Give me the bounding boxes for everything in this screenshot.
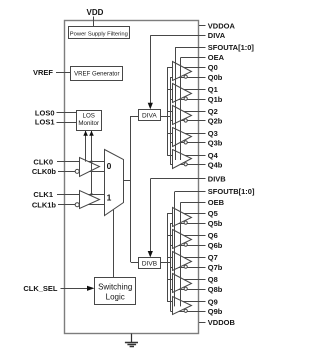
inversion bubble CLK1b [75,203,79,207]
svg-text:Q3: Q3 [208,129,218,138]
wire Q7 [167,257,205,259]
svg-text:Monitor: Monitor [78,120,99,127]
pin OEB [199,198,225,207]
svg-text:Q0b: Q0b [208,73,223,82]
output buffer Q8 [173,274,192,293]
pin LOS1 label [35,118,55,127]
wire trunk to DIVB [131,262,138,264]
wire OEA [181,58,200,161]
pin Q8b [199,285,223,294]
output buffer Q6 [173,230,192,249]
pin Q0 [199,63,218,72]
wire clock bus A comp [170,77,172,165]
pin Q1 [199,85,218,94]
pin Q4b [199,160,223,169]
svg-text:0: 0 [107,161,112,171]
pin SFOUTB[1:0] [199,187,255,196]
pin Q3 [199,129,218,138]
inversion bubble CLK0b [75,169,79,173]
svg-text:Q2: Q2 [208,107,218,116]
pin OEA [199,53,225,62]
svg-text:VDDOA: VDDOA [208,22,236,31]
pin CLK0b label [32,167,57,176]
svg-text:Q3b: Q3b [208,139,223,148]
svg-text:CLK1b: CLK1b [32,200,57,209]
pin Q0b [199,73,223,82]
inversion bubble Q6b [184,243,187,246]
pin DIVA [199,31,226,40]
output buffer Q1 [173,84,192,103]
svg-text:Q1: Q1 [208,85,218,94]
pin Q6 [199,231,218,240]
wire clock bus B true [167,213,169,301]
inversion bubble Q9b [184,309,187,312]
wire LOS0 [57,112,77,114]
svg-text:Q7: Q7 [208,253,218,262]
svg-text:Power Supply Filtering: Power Supply Filtering [70,32,128,38]
svg-text:DIVB: DIVB [208,175,227,184]
inversion bubble Q2b [184,119,187,122]
divider DIVB block [139,258,161,269]
wire Q4b [170,164,205,166]
pin Q1b [199,95,223,104]
wire Q9b [170,311,205,313]
output buffer Q2 [173,106,192,125]
pin CLK1b label [32,200,57,209]
pin VDDOB [199,318,235,327]
pin Q9b [199,307,223,316]
svg-text:Switching: Switching [98,282,132,291]
wire mux select from switching logic [113,210,115,278]
inversion bubble Q5b [184,221,187,224]
input buffer CLK1 [80,191,100,209]
svg-text:Logic: Logic [106,293,125,302]
svg-text:Q6: Q6 [208,231,218,240]
pin Q5 [199,209,218,218]
wire DIVA output [160,116,170,118]
pin CLK_SEL label [23,284,58,293]
pin SFOUTA[1:0] [199,43,254,52]
svg-text:SFOUTA[1:0]: SFOUTA[1:0] [208,43,255,52]
svg-text:CLK_SEL: CLK_SEL [23,284,58,293]
wire OEB [180,203,199,307]
svg-text:SFOUTB[1:0]: SFOUTB[1:0] [208,187,255,196]
wire DIVB control [148,179,199,258]
power supply filtering block [69,27,130,39]
wire clock bus A true [167,67,169,155]
svg-text:Q8: Q8 [208,275,218,284]
svg-text:VREF Generator: VREF Generator [74,71,119,78]
svg-text:CLK0: CLK0 [33,157,53,166]
inversion bubble Q1b [184,97,187,100]
svg-text:Q1b: Q1b [208,95,223,104]
wire Q4 [167,155,205,157]
output buffer Q4 [173,150,192,169]
pin CLK1 label [33,190,53,199]
wire SFOUTB [175,192,200,307]
wire CLK0b [58,171,105,173]
svg-text:VDD: VDD [87,8,104,17]
wire LOS tap CLK0 [83,131,88,162]
pin Q4 [199,151,219,160]
output buffer Q5 [173,208,192,227]
svg-text:LOS: LOS [83,113,95,120]
wire Q1 [167,89,205,91]
svg-text:CLK0b: CLK0b [32,167,57,176]
wire Q7b [170,267,205,269]
pin Q9 [199,297,218,306]
svg-text:1: 1 [107,193,112,203]
svg-text:VDDOB: VDDOB [208,318,236,327]
wire Q6 [167,235,205,237]
svg-text:Q8b: Q8b [208,285,223,294]
mux input 1 label [107,193,112,203]
svg-text:OEB: OEB [208,198,225,207]
svg-text:DIVA: DIVA [142,112,157,119]
input buffer CLK0 [80,158,100,177]
output buffer Q3 [173,128,192,147]
svg-text:LOS1: LOS1 [35,118,55,127]
pin Q2b [199,117,223,126]
inversion bubble Q3b [184,141,187,144]
pin CLK0 label [33,157,53,166]
wire clock bus B comp [170,223,172,311]
svg-text:OEA: OEA [208,53,225,62]
output buffer Q9 [173,297,192,315]
wire Q6b [170,245,205,247]
output buffer Q7 [173,252,192,271]
inversion bubble Q8b [184,287,187,290]
wire mux output [124,180,131,182]
wire VREF [56,72,72,74]
pin Q3b [199,139,223,148]
wire CLK0 [57,161,105,163]
wire DIVB output [161,262,170,264]
ground [125,334,138,347]
inversion bubble Q7b [184,265,187,268]
wire Q9 [167,301,205,303]
pin LOS0 label [35,108,55,117]
svg-text:Q5: Q5 [208,209,218,218]
wire VDD to power supply filter [93,17,95,28]
wire Q8b [170,289,205,291]
output buffer Q0 [173,62,192,81]
svg-text:Q9: Q9 [208,297,218,306]
pin Q5b [199,219,223,228]
pin VDD label [87,8,104,17]
wire SFOUTA [175,48,199,161]
svg-text:DIVB: DIVB [142,261,157,268]
pin Q6b [199,241,223,250]
wire CLK1 [57,194,105,196]
pin DIVB [199,175,226,184]
wire LOS1 [57,122,77,124]
inversion bubble Q4b [184,163,187,166]
pin Q7b [199,263,223,272]
svg-text:Q0: Q0 [208,63,218,72]
svg-text:Q4: Q4 [208,151,219,160]
wire Q2b [170,120,205,122]
pin Q8 [199,275,218,284]
svg-text:Q9b: Q9b [208,307,223,316]
switching logic block [95,278,136,305]
inversion bubble Q0b [184,75,187,78]
svg-text:Q6b: Q6b [208,241,223,250]
wire Q2 [167,111,205,113]
wire DIVA control [148,36,199,110]
wire LOS tap CLK1 [89,131,94,196]
wire Q5b [170,223,205,225]
pin Q7 [199,253,218,262]
wire CLK1b [58,204,105,206]
svg-text:Q7b: Q7b [208,263,223,272]
clock mux [105,150,124,216]
wire Q5 [167,213,205,215]
pin VDDOA [199,22,235,31]
mux input 0 label [107,161,112,171]
wire Q0b [170,77,205,79]
wire trunk to DIVA [131,116,139,118]
wire Q1b [170,99,205,101]
wire Q0 [167,67,205,69]
svg-text:DIVA: DIVA [208,31,226,40]
pin Q2 [199,107,218,116]
svg-text:Q5b: Q5b [208,219,223,228]
wire Q8 [167,279,205,281]
svg-text:LOS0: LOS0 [35,108,55,117]
wire Q3 [167,133,205,135]
svg-text:CLK1: CLK1 [33,190,53,199]
svg-text:VREF: VREF [33,68,53,77]
pin VREF label [33,68,53,77]
VREF generator block [71,67,123,81]
wire mux output trunk [130,116,132,262]
chip boundary box [65,21,199,334]
svg-text:Q2b: Q2b [208,117,223,126]
divider DIVA block [139,110,161,121]
LOS monitor block [77,111,102,131]
wire Q3b [170,142,205,144]
svg-text:Q4b: Q4b [208,160,223,169]
wire CLK_SEL with arrow [61,286,95,291]
